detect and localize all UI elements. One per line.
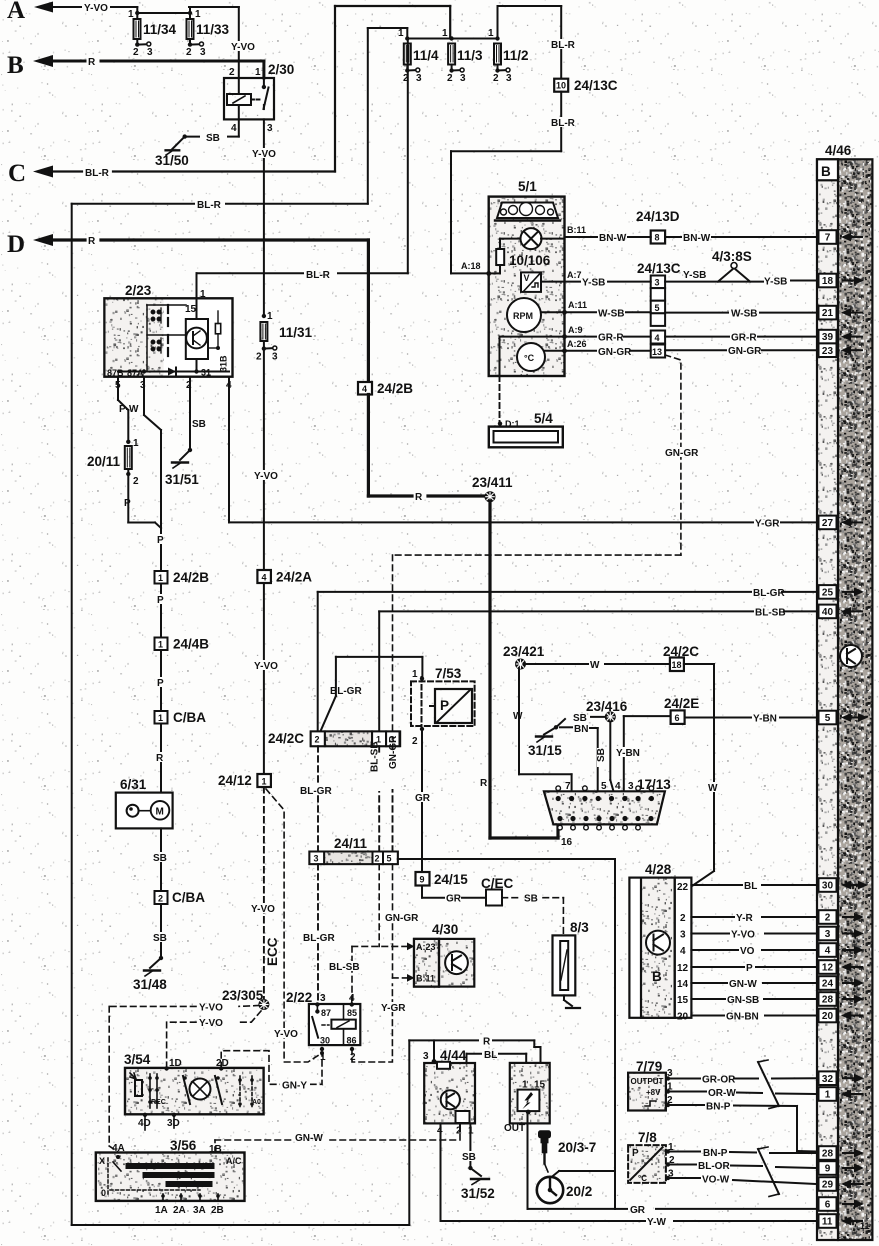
svg-text:W: W (708, 783, 718, 794)
svg-text:4/30: 4/30 (432, 922, 458, 937)
wire VO row pin4 (691, 949, 815, 951)
svg-text:4/46: 4/46 (825, 143, 852, 158)
svg-text:27: 27 (822, 518, 834, 529)
svg-text:1: 1 (255, 67, 261, 78)
gauge face symbol (495, 203, 560, 221)
connector 24/13C [10] (554, 79, 568, 92)
svg-text:°C: °C (524, 353, 535, 363)
wire thick R down to 17/13 pin16 (490, 501, 558, 838)
svg-text:5: 5 (387, 854, 392, 864)
svg-text:24/2E: 24/2E (664, 696, 699, 711)
svg-text:SB: SB (596, 748, 607, 762)
svg-text:31B: 31B (219, 355, 229, 372)
svg-text:BL-SB: BL-SB (755, 607, 786, 618)
svg-text:GN-GR: GN-GR (598, 347, 632, 358)
svg-text:Y-VO: Y-VO (274, 1029, 298, 1040)
wire 2/22 pin4 dashed up (351, 998, 353, 1004)
svg-text:2: 2 (158, 894, 163, 904)
svg-text:6: 6 (825, 1200, 831, 1211)
svg-text:11/3: 11/3 (457, 48, 483, 63)
svg-text:2B: 2B (211, 1205, 224, 1216)
svg-text:Y-VO: Y-VO (84, 3, 108, 14)
svg-text:18: 18 (672, 660, 682, 670)
svg-text:3: 3 (314, 854, 319, 864)
svg-text:1: 1 (412, 669, 418, 680)
svg-text:OR-W: OR-W (708, 1088, 736, 1099)
svg-text:C: C (8, 160, 26, 187)
wire 4/44 pin2 stub (459, 1123, 461, 1131)
svg-text:ECC: ECC (265, 937, 280, 966)
wire GN-W dashed 3/56 1B to 4/44 pin2 (215, 1128, 460, 1153)
svg-text:12: 12 (677, 963, 689, 974)
svg-text:VO-W: VO-W (702, 1175, 730, 1186)
svg-text:+8V: +8V (646, 1088, 661, 1097)
svg-text:BN: BN (574, 724, 588, 735)
svg-text:Y-SB: Y-SB (764, 277, 787, 288)
wire GN-BN row pin20 (691, 1015, 815, 1017)
svg-text:4: 4 (262, 573, 267, 583)
pin 9 4/46 (819, 1161, 837, 1175)
svg-text:24/13C: 24/13C (637, 261, 681, 276)
svg-text:3: 3 (147, 47, 153, 58)
svg-text:20/11: 20/11 (87, 454, 121, 469)
wire Y-VO dashed row1 to left (109, 1006, 259, 1153)
crossing mark upper (758, 1062, 779, 1106)
wire W down to 4/28 pin 22 (684, 664, 714, 886)
svg-text:2: 2 (256, 352, 262, 363)
svg-text:31/52: 31/52 (461, 1186, 495, 1201)
svg-text:X: X (99, 1156, 105, 1166)
svg-text:24/12: 24/12 (218, 773, 252, 788)
svg-text:4: 4 (362, 384, 367, 394)
svg-text:Y-VO: Y-VO (199, 1018, 223, 1029)
svg-text:Y-VO: Y-VO (254, 661, 278, 672)
wire SB from relay pin4 (172, 119, 238, 148)
svg-text:23/416: 23/416 (586, 699, 628, 714)
connector 24/15 [9] (416, 872, 430, 886)
svg-text:BL-R: BL-R (551, 40, 576, 51)
svg-text:Y-BN: Y-BN (753, 714, 777, 725)
wire OUT to distributor frame (528, 1112, 616, 1209)
wire Y-VO row pin3 (691, 933, 815, 935)
wire BL-OR row pin9 (668, 1165, 815, 1169)
svg-text:11/4: 11/4 (413, 48, 439, 63)
pin 25 4/46 (819, 585, 837, 599)
svg-text:Y-VO: Y-VO (231, 42, 255, 53)
fuse inside 5/1 (489, 239, 521, 274)
wire left frame long (72, 204, 410, 1225)
svg-text:4: 4 (680, 946, 686, 957)
svg-text:B: B (7, 52, 24, 79)
svg-text:A/C: A/C (226, 1156, 242, 1166)
svg-text:BN-W: BN-W (599, 233, 627, 244)
svg-text:85: 85 (347, 1008, 357, 1018)
svg-text:7/53: 7/53 (435, 666, 462, 681)
svg-text:7: 7 (825, 233, 831, 244)
svg-text:BL-R: BL-R (551, 118, 576, 129)
svg-text:A:7: A:7 (567, 270, 582, 280)
svg-text:GN-GR: GN-GR (388, 735, 399, 769)
svg-text:1: 1 (262, 777, 267, 787)
svg-text:W-SB: W-SB (731, 309, 757, 320)
svg-text:3A: 3A (193, 1205, 206, 1216)
svg-text:20/3-7: 20/3-7 (558, 1140, 596, 1155)
resistor in 2/23 (215, 324, 220, 334)
svg-text:11/33: 11/33 (196, 22, 230, 37)
svg-text:5: 5 (655, 303, 660, 313)
wire 4/44 pin4 to Y-W rail (440, 1123, 442, 1221)
svg-text:10/106: 10/106 (509, 253, 551, 268)
svg-text:2: 2 (403, 73, 409, 84)
connector 24/2B [1] (155, 571, 168, 584)
svg-text:SB: SB (206, 133, 220, 144)
pin 29 4/46 (819, 1177, 837, 1191)
svg-text:24/11: 24/11 (334, 836, 368, 851)
fuse 11/3 (448, 44, 464, 73)
svg-text:2/30: 2/30 (268, 62, 294, 77)
svg-text:4/44: 4/44 (440, 1048, 467, 1063)
wire GR-R row pin 39 (565, 336, 816, 338)
svg-text:10: 10 (556, 81, 566, 91)
wire BN-P 7/79 pin2 to pin28 (668, 1105, 815, 1152)
svg-text:28: 28 (822, 995, 834, 1006)
svg-text:12: 12 (822, 963, 834, 974)
svg-text:P: P (440, 698, 449, 713)
wire BL row pin30 (691, 884, 815, 886)
svg-text:1: 1 (398, 28, 404, 39)
svg-text:W-SB: W-SB (598, 309, 624, 320)
svg-text:8/3: 8/3 (570, 920, 589, 935)
svg-text:GN-Y: GN-Y (282, 1080, 307, 1091)
svg-text:1: 1 (825, 1090, 831, 1101)
svg-text:4: 4 (615, 781, 621, 792)
svg-text:86: 86 (347, 1036, 357, 1046)
wire D arrow R thick (33, 234, 368, 382)
wire SB 2/23 pin2 to ground (180, 377, 190, 460)
connector 24/2A [4] (257, 570, 271, 583)
svg-text:24/13C: 24/13C (574, 78, 618, 93)
svg-text:W: W (513, 711, 523, 722)
svg-text:3: 3 (272, 352, 278, 363)
connector 24/2B [4] on thick R (358, 382, 372, 395)
wire BN-P row pin28 (668, 1152, 815, 1154)
wire GN-GR dashed from 24/13C 13 (393, 355, 681, 731)
crossing mark lower (758, 1149, 779, 1194)
svg-text:B: B (652, 969, 662, 984)
svg-text:Y-VO: Y-VO (254, 471, 278, 482)
wire GN-GR dashed 24/11 pin5 to B:11 (393, 864, 408, 978)
svg-text:1: 1 (195, 9, 201, 20)
pin 4 4/46 (819, 943, 837, 957)
wire Y-VO to 24/12 (263, 583, 265, 774)
wire BL-SB row pin 40 (379, 611, 815, 731)
svg-text:BN-P: BN-P (703, 1148, 728, 1159)
pin 7 4/46 (819, 230, 837, 244)
svg-text:3/54: 3/54 (124, 1052, 151, 1067)
svg-text:40: 40 (822, 607, 834, 618)
svg-text:1: 1 (158, 640, 163, 650)
wire Y-VO dashed row2 to 3/54 pin 1D (167, 1011, 261, 1068)
svg-text:31: 31 (201, 368, 211, 378)
svg-text:5: 5 (825, 713, 831, 724)
svg-text:Y-W: Y-W (647, 1217, 666, 1228)
svg-text:GN-W: GN-W (295, 1133, 323, 1144)
svg-text:30: 30 (822, 881, 834, 892)
wire OR-W row pin1 (668, 1092, 815, 1095)
svg-text:Y-VO: Y-VO (251, 904, 275, 915)
svg-text:31/50: 31/50 (155, 153, 189, 168)
wire SB to ground 31/15 (544, 717, 606, 735)
svg-text:24: 24 (822, 979, 834, 990)
svg-text:2: 2 (680, 913, 686, 924)
svg-text:1: 1 (488, 28, 494, 39)
svg-text:21: 21 (822, 308, 834, 319)
svg-text:30: 30 (320, 1036, 330, 1046)
svg-text:BL: BL (744, 881, 757, 892)
svg-text:Y-VO: Y-VO (731, 930, 755, 941)
wire Y-SB row pin 18 with 4/3:8S (565, 268, 816, 282)
svg-text:5/4: 5/4 (534, 411, 553, 426)
connector C/BA [2] (155, 891, 168, 904)
connector 24/12 [1] (257, 774, 271, 787)
fuse 11/31 (260, 314, 276, 350)
pin 12 4/46 (819, 960, 837, 974)
svg-text:24/2B: 24/2B (377, 381, 413, 396)
pin 20 4/46 (819, 1009, 837, 1023)
svg-text:SB: SB (192, 419, 206, 430)
svg-text:VO: VO (740, 946, 755, 957)
wire 2/23 pin5 P-W to 20/11 (118, 377, 128, 442)
svg-text:A:18: A:18 (461, 261, 481, 271)
svg-text:A: A (7, 0, 25, 24)
svg-text:9: 9 (420, 875, 425, 885)
wire GN-W row pin24 (691, 982, 815, 984)
svg-text:23: 23 (822, 346, 834, 357)
pin 3 4/46 (819, 927, 837, 941)
ignition coil in 4/44 (510, 1063, 550, 1124)
lamp symbol in 5/1 (521, 228, 542, 249)
svg-text:R: R (480, 778, 488, 789)
svg-text:2: 2 (493, 73, 499, 84)
svg-text:24/4B: 24/4B (173, 637, 209, 652)
svg-text:B:11: B:11 (416, 974, 435, 984)
svg-text:3: 3 (200, 47, 206, 58)
strip transistor symbol (840, 645, 862, 667)
svg-text:3: 3 (655, 278, 660, 288)
wire VO-W row pin29 (668, 1178, 815, 1184)
svg-text:B: B (821, 164, 831, 179)
transistor U in 2/23 (186, 319, 208, 359)
svg-text:25: 25 (822, 588, 834, 599)
fuse 11/2 (494, 44, 510, 73)
svg-text:3: 3 (460, 73, 466, 84)
voltage symbol box in 5/1 (521, 272, 541, 292)
svg-text:1: 1 (158, 573, 163, 583)
svg-text:BL-GR: BL-GR (753, 588, 785, 599)
svg-text:B:11: B:11 (567, 225, 586, 235)
svg-text:SB: SB (153, 853, 167, 864)
svg-text:4: 4 (825, 946, 831, 957)
wire Y-BN from 24/2E to 17/13 pin3 (624, 716, 671, 791)
svg-text:6/31: 6/31 (120, 777, 147, 792)
temp gauge in 5/1 (517, 343, 545, 371)
svg-text:7: 7 (565, 781, 571, 792)
wire 2/23 pin3 to P column (144, 377, 161, 793)
wire BL-SB dashed 24/11 pin2 to A:23 (352, 864, 407, 998)
svg-text:1: 1 (267, 311, 273, 322)
4/44 power box (424, 1063, 475, 1123)
ground 31/50 (166, 150, 180, 155)
svg-text:29: 29 (822, 1180, 834, 1191)
svg-text:GN-SB: GN-SB (727, 995, 759, 1006)
svg-text:3: 3 (680, 930, 686, 941)
wire GN-SB row pin28 (691, 998, 815, 1000)
svg-text:R: R (156, 753, 164, 764)
svg-text:24/2B: 24/2B (173, 570, 209, 585)
pin 28 4/46 (819, 1146, 837, 1160)
svg-text:GN-GR: GN-GR (385, 913, 419, 924)
wire GR to C/EC (422, 886, 486, 898)
wire BL-GR row pin 25 (318, 592, 815, 732)
wire Y-BN row pin 5 (685, 717, 815, 719)
pin 1 4/46 (819, 1087, 837, 1101)
svg-text:R: R (483, 1036, 491, 1047)
svg-text:A:9: A:9 (568, 325, 583, 335)
svg-text:5: 5 (601, 781, 607, 792)
svg-text:4: 4 (655, 333, 660, 343)
svg-text:11: 11 (822, 1217, 833, 1228)
svg-text:6: 6 (675, 713, 680, 723)
pin 5 4/46 (819, 711, 837, 725)
wire C arrow BL-R (33, 6, 450, 178)
svg-text:1A: 1A (155, 1205, 168, 1216)
svg-text:Y-VO: Y-VO (199, 1002, 223, 1013)
fuse 20/11 (125, 440, 132, 474)
svg-text:GN-W: GN-W (729, 979, 757, 990)
svg-text:2: 2 (447, 73, 453, 84)
svg-text:GN-BN: GN-BN (726, 1012, 759, 1023)
svg-text:P: P (157, 678, 164, 689)
pin 21 4/46 (819, 306, 837, 320)
svg-text:GR: GR (630, 1205, 646, 1216)
wire BL-R upper (fuse 11/4 to left frame) (72, 28, 408, 204)
wire Y-VO column below 11/31 (263, 349, 265, 570)
svg-text:11/2: 11/2 (503, 48, 529, 63)
wire BL-R down to 5/1 A:18 (451, 92, 561, 274)
svg-text:32: 32 (822, 1074, 834, 1085)
svg-text:31/15: 31/15 (528, 743, 562, 758)
wire GN-GR row pin 23 (565, 349, 816, 352)
wire BL-GR dashed 24/11 pin3 to 2/22 pin3 (317, 864, 319, 1004)
svg-text:20: 20 (822, 1011, 834, 1022)
wire 3/54 4D 3D stubs (145, 1114, 174, 1130)
wire Y-VO dashed 24/12 to 23/305 (263, 787, 265, 1000)
svg-text:BL-SB: BL-SB (370, 741, 381, 772)
svg-text:14: 14 (677, 979, 689, 990)
svg-text:A:26: A:26 (567, 339, 587, 349)
svg-text:BL-R: BL-R (306, 270, 331, 281)
pin 40 4/46 (819, 605, 837, 619)
svg-text:1D: 1D (169, 1058, 182, 1069)
svg-text:39: 39 (822, 332, 834, 343)
wire Y-VO below relay pin3 (263, 119, 265, 316)
svg-text:SB: SB (524, 894, 538, 905)
svg-text:GR: GR (415, 793, 431, 804)
svg-text:0: 0 (101, 1188, 106, 1198)
pin 23 4/46 (819, 343, 837, 357)
svg-text:15: 15 (534, 1080, 546, 1091)
pin 27 4/46 (819, 516, 837, 530)
pin 18 4/46 (819, 274, 837, 288)
svg-text:D: D (7, 231, 25, 258)
pin 24 4/46 (819, 976, 837, 990)
wire GR long from 24/11 right to pin 6 (398, 859, 815, 1209)
svg-text:2: 2 (315, 734, 320, 744)
wire W row to 24/2C 18 (524, 663, 670, 665)
wire W down from 23/421 to 17/13 pin7 (519, 669, 572, 792)
svg-text:24/2A: 24/2A (276, 570, 312, 585)
svg-text:A:23: A:23 (416, 942, 436, 952)
svg-text:V: V (524, 273, 530, 283)
svg-text:2: 2 (186, 47, 192, 58)
svg-text:23/421: 23/421 (503, 644, 545, 659)
connector C/BA [1] (155, 711, 168, 724)
svg-text:Y-GR: Y-GR (381, 1003, 406, 1014)
svg-text:BN-P: BN-P (706, 1102, 731, 1113)
svg-text:11/34: 11/34 (143, 22, 177, 37)
svg-text:GR-R: GR-R (731, 333, 757, 344)
svg-text:GR: GR (446, 894, 462, 905)
svg-text:3: 3 (825, 929, 831, 940)
wire P row pin12 (691, 966, 815, 968)
svg-text:4/3:8S: 4/3:8S (712, 249, 752, 264)
pin 30 4/46 (819, 878, 837, 892)
wire A arrow Y-VO (34, 2, 137, 13)
wire GR down to 24/15 (421, 730, 423, 872)
wire BN to 17/13 pin5 (560, 727, 598, 791)
svg-text:17/13: 17/13 (637, 777, 671, 792)
wire Y-GR dashed 2/22 pin2 to B:11 (352, 984, 392, 1062)
svg-text:GR-R: GR-R (598, 333, 624, 344)
svg-text:23/305: 23/305 (222, 988, 264, 1003)
svg-text:1: 1 (442, 28, 448, 39)
fuse 11/33 (187, 19, 204, 46)
svg-text:REC: REC (151, 1099, 166, 1106)
svg-text:31/48: 31/48 (133, 977, 167, 992)
pin 28 4/46 (819, 992, 837, 1006)
svg-text:1: 1 (158, 713, 163, 723)
svg-text:Y-VO: Y-VO (252, 149, 276, 160)
svg-text:GN-GR: GN-GR (665, 448, 699, 459)
fuse 11/4 (404, 44, 420, 73)
svg-text:W: W (590, 660, 600, 671)
svg-text:2: 2 (375, 854, 380, 864)
svg-text:4A: 4A (112, 1143, 125, 1154)
svg-text:2: 2 (133, 47, 139, 58)
svg-text:3: 3 (628, 781, 634, 792)
ground 31/48 (144, 958, 161, 976)
svg-text:3/56: 3/56 (170, 1138, 197, 1153)
wire SB below 6/31 (160, 828, 162, 891)
wire BL-R to 2/23 pin 15 (197, 39, 408, 299)
svg-text:2: 2 (825, 913, 831, 924)
svg-text:Y-SB: Y-SB (582, 278, 605, 289)
wire Y-GR row pin 27 (228, 377, 230, 523)
svg-text:20: 20 (677, 1012, 689, 1023)
svg-text:P: P (157, 595, 164, 606)
svg-text:P: P (157, 535, 164, 546)
svg-text:87: 87 (321, 1008, 331, 1018)
